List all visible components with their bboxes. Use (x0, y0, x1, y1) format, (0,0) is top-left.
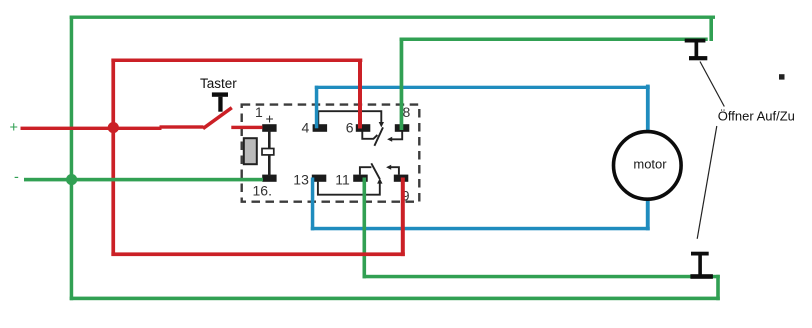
NC switch Zu stem (698, 255, 702, 274)
stray dot (779, 74, 785, 79)
svg-text:4: 4 (302, 119, 310, 135)
svg-text:+: + (10, 120, 18, 136)
coil series element (262, 149, 274, 155)
wire green pin11 horizontal (363, 275, 720, 279)
coil link wire pin1 to pin16 (268, 130, 271, 176)
wire green top rail (70, 16, 715, 19)
wire blue pin4 vertical (315, 86, 319, 129)
svg-text:Öffner Auf/Zu: Öffner Auf/Zu (718, 109, 795, 124)
relay pin pad 4 (313, 124, 328, 132)
relay pin pad 9 (394, 175, 409, 182)
relay K1 dashed outline (242, 105, 420, 202)
wire green minus feed (24, 178, 263, 182)
NC switch Auf stem (695, 42, 699, 57)
motor M1 (614, 132, 682, 200)
svg-text:11: 11 (335, 171, 350, 187)
svg-text:motor: motor (633, 156, 667, 171)
relay contact linkage pin13 common (318, 182, 380, 195)
relay pin pad 6 (356, 124, 371, 132)
NC switch Auf bottom bar (689, 56, 707, 60)
wire red plus feed segment 2 (160, 125, 204, 128)
relay pin pad 8 (395, 124, 410, 132)
wire red top rail (111, 59, 362, 63)
linkage pin11 (360, 167, 372, 174)
NC switch Auf top bar (685, 39, 706, 43)
wire red bottom rail (111, 252, 404, 256)
arrow tip pin8 (387, 137, 392, 142)
contact blade top (374, 127, 383, 145)
linkage pin9 with arrow (390, 167, 399, 174)
wire green top right vertical (709, 16, 713, 42)
wire blue bottom rail (311, 227, 650, 231)
relay coil (244, 138, 257, 164)
relay contact linkage pin4 common (318, 111, 381, 124)
annotation line to Auf switch (700, 62, 724, 107)
wire green pin11 vertical (363, 178, 367, 279)
wire red to pin1 (231, 126, 262, 129)
junction red (108, 122, 119, 133)
svg-text:16.: 16. (253, 182, 272, 198)
wire blue pin13 vertical (311, 178, 315, 231)
annotation line to Zu switch (697, 126, 717, 239)
Taster actuator symbol (212, 92, 228, 96)
wire green pin8 vertical (400, 38, 404, 131)
arrow tip pin9 (386, 165, 391, 170)
wire green pin8 horizontal (400, 38, 708, 42)
svg-text:1: 1 (255, 104, 263, 120)
wire red left vertical (111, 59, 115, 257)
relay pin pad 16 (262, 175, 276, 182)
relay pin pad 11 (353, 175, 368, 182)
Taster switch blade (203, 108, 232, 129)
wire red pin6 vertical (358, 59, 362, 129)
svg-text:-: - (14, 170, 19, 186)
arrow tip pin4 (379, 122, 384, 127)
linkage pin8 with arrow (391, 132, 402, 140)
NC switch Zu bottom bar (690, 274, 713, 279)
junction green (66, 174, 77, 185)
contact blade bottom (371, 163, 380, 179)
relay pin pad 13 (312, 175, 327, 182)
relay pin pad 1 (262, 124, 276, 132)
wire blue top rail (315, 86, 650, 89)
svg-text:+: + (266, 111, 274, 127)
linkage pin6 (362, 132, 377, 139)
svg-text:Taster: Taster (200, 76, 237, 91)
wire green left vertical (70, 16, 74, 301)
arrow tip pin13 (377, 178, 382, 183)
wire red plus feed segment (21, 127, 162, 130)
wire blue motor bottom vertical (646, 199, 650, 231)
svg-text:6: 6 (346, 119, 354, 135)
svg-text:13: 13 (293, 171, 309, 187)
wire green right bottom vertical (716, 275, 720, 300)
wire red pin9 vertical (401, 178, 405, 257)
NC switch Zu top bar (691, 252, 709, 256)
wire green bottom rail (70, 297, 720, 301)
wire blue motor top vertical (646, 85, 650, 133)
svg-text:8: 8 (403, 104, 411, 120)
